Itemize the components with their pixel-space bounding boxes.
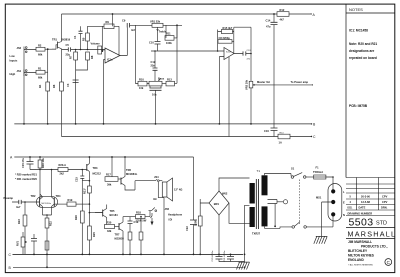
svg-text:R30: R30 [107,221,112,225]
svg-text:NOTES: NOTES [349,7,363,12]
resistor R13 [166,81,177,86]
svg-text:20-3-90: 20-3-90 [361,195,370,199]
svg-text:C14: C14 [266,19,271,23]
svg-text:R22: R22 [49,221,53,226]
svg-text:R25: R25 [92,232,96,237]
svg-text:4u7: 4u7 [16,205,21,209]
resistor R27 [45,241,49,250]
wire supply rail top [62,13,278,15]
resistor R6 [60,82,64,137]
capacitor C14 [271,22,278,24]
resistor R8 lower [76,52,90,70]
svg-text:ISS.: ISS. [348,206,353,210]
jack JS5 headphone [149,208,157,219]
wire treble row [130,24,183,26]
transistor pair envelope TR2 TR4 [36,197,57,208]
wire TR7 connections [122,217,124,255]
svg-text:JS2: JS2 [17,46,22,50]
resistor R16 [38,157,42,198]
svg-text:2k2: 2k2 [60,172,65,176]
resistor R22 tail [45,218,49,267]
svg-text:VR3 10k: VR3 10k [245,79,249,90]
svg-text:R8: R8 [90,55,94,59]
resistor R14b [218,40,232,44]
transistor TR4 [53,198,55,207]
resistor R14 [278,134,290,139]
transistor TR6 [120,178,122,185]
svg-text:100k: 100k [166,41,172,45]
svg-text:BLETCHLEY: BLETCHLEY [348,249,368,253]
svg-text:R19: R19 [68,198,73,202]
wire primary bottom to switch [265,226,292,228]
wire A rail drop R17 [111,157,113,177]
feedback network IC1b [218,27,251,53]
wire mix node [47,49,49,82]
svg-text:R9: R9 [106,20,110,24]
bridge rectifier BR1 [209,191,229,215]
NOTES box [346,4,395,177]
svg-text:R11: R11 [166,32,171,36]
svg-text:PRODUCTS LTD.,: PRODUCTS LTD., [361,245,388,249]
svg-text:C9: C9 [122,19,126,23]
svg-text:4Ω: 4Ω [153,197,157,201]
svg-text:12" 4Ω: 12" 4Ω [174,188,182,192]
svg-text:STD: STD [376,221,387,227]
wire TR1 drain to rail [61,14,63,42]
node mix [47,48,49,50]
capacitor C20 [216,257,223,260]
potentiometer VR volume [98,46,105,54]
wire speaker return [158,182,164,254]
capacitor C15 [29,157,31,162]
wire TR3 collector to rail [88,157,90,164]
svg-text:TR5: TR5 [110,209,115,213]
svg-text:MS1: MS1 [316,196,322,200]
potentiometer VR2 bass [149,79,166,86]
transistor TR2 [39,198,41,207]
jack JS4 speaker [156,179,163,181]
svg-text:IC1: MC1458: IC1: MC1458 [349,29,368,33]
node B terminal [311,123,312,124]
svg-text:MARSHALL: MARSHALL [348,229,397,238]
resistor R19 [54,202,89,206]
resistor R5 upper [86,26,90,49]
svg-text:R20-A: R20-A [59,163,67,167]
wire 0V rail preamp [14,123,311,125]
wire center tap [245,205,250,262]
svg-text:To Power amp: To Power amp [291,80,309,84]
fuse F1 [306,175,326,179]
svg-text:S1: S1 [291,167,295,171]
svg-text:TR2: TR2 [31,194,36,198]
svg-text:C3: C3 [66,83,70,87]
capacitor C4 [80,26,82,31]
capacitor C11 [150,86,161,88]
svg-text:T500mA: T500mA [313,170,323,174]
svg-text:JS1: JS1 [17,69,22,73]
transistor TR3 [86,164,88,171]
wire jack grounds [23,47,25,124]
resistor R33 [198,216,202,226]
svg-text:IC1b: IC1b [226,52,231,54]
wire IC1a plus input [104,60,106,124]
wire bridge AC bottom [229,203,250,223]
svg-text:R6: R6 [52,84,56,88]
op-amp IC1a [105,48,120,63]
switch S1 bottom [292,222,306,228]
svg-text:High: High [10,72,16,76]
svg-text:W02: W02 [222,192,228,196]
svg-text:ENGLAND: ENGLAND [348,258,364,262]
svg-text:© ALL RIGHTS RESERVED: © ALL RIGHTS RESERVED [348,264,374,267]
wire zobel drop [193,157,195,254]
node C terminal [311,136,312,137]
wire mid to IC1b [151,50,224,52]
copyright symbol C [385,259,392,266]
resistor R31 [128,232,132,254]
svg-text:C22: C22 [185,226,189,231]
resistor R30 [105,225,120,229]
pin E [331,200,335,204]
primary tap loop [268,200,278,227]
svg-text:* R20 marked R21: * R20 marked R21 [15,173,37,177]
capacitor C10 [155,42,161,45]
svg-text:MC9081L: MC9081L [126,172,138,176]
wire emitters tail [43,207,52,219]
wire IC1b plus input [219,57,224,124]
svg-text:100R: 100R [194,220,198,226]
tone stack left bracket [134,25,136,83]
resistor R12 [277,12,289,17]
svg-text:12-5-88: 12-5-88 [361,200,370,204]
node R4 ground [47,123,49,125]
svg-text:* R21 marked R20: * R21 marked R20 [15,177,37,181]
svg-text:JIM MARSHALL: JIM MARSHALL [348,240,372,244]
svg-text:Note: R20 and R21: Note: R20 and R21 [349,42,377,46]
preset RV1 [21,232,27,254]
svg-text:Master Vol: Master Vol [257,80,270,84]
wire E pin to ground [322,202,332,236]
wire bridge AC top [219,178,250,191]
jack JS1 [24,70,36,77]
svg-text:JS4: JS4 [154,175,159,179]
svg-text:R21*: R21* [83,188,87,194]
svg-text:R16 10k: R16 10k [41,158,45,168]
svg-text:1A: 1A [279,141,282,145]
svg-text:TR4: TR4 [56,194,61,198]
wire IC1b power pin [228,57,230,137]
node rail tap [112,13,114,15]
resistor R26 [80,181,84,255]
wire bridge DC plus [218,215,220,254]
svg-text:68k: 68k [38,53,43,57]
svg-text:TXR27: TXR27 [252,232,261,236]
ground symbol mains earth [314,236,327,243]
svg-text:C5: C5 [66,43,70,47]
svg-text:R26: R26 [74,215,78,220]
svg-text:R7: R7 [69,55,73,59]
wire feedback top IC1a [88,26,120,55]
node treble junction [176,24,178,26]
svg-text:5503: 5503 [349,217,374,229]
svg-text:JS5: JS5 [165,207,170,211]
wire TR2 collector load [40,194,43,197]
svg-text:10k: 10k [139,86,144,90]
svg-text:R5: R5 [82,37,86,41]
resistor R21 [88,186,92,226]
mains connector MS1 outline [328,184,342,222]
switch gang dashed link [299,180,301,225]
svg-text:RV1: RV1 [16,240,20,246]
svg-text:TR1: TR1 [52,38,57,42]
ground symbol PSU [237,262,250,269]
svg-text:DRAWING NUMBER: DRAWING NUMBER [348,211,373,215]
resistor R25 [88,226,92,254]
wire TR6 collector to rail [124,157,126,177]
transformer primary winding [262,175,268,195]
tone stack right bracket [176,25,178,83]
svg-text:R17: R17 [106,173,111,177]
wire C rail [13,253,244,255]
svg-text:Headphone: Headphone [168,213,183,217]
transformer secondary winding [250,183,255,204]
resistor R10 [135,81,149,86]
svg-text:TR3: TR3 [93,166,98,170]
resistor R15 [222,29,233,33]
wire N pin to switch [306,217,333,227]
svg-text:22n: 22n [151,64,156,68]
svg-text:C15 47u: C15 47u [21,158,25,168]
resistor R11 [165,25,177,40]
resistor R4 [46,82,50,124]
svg-text:C4: C4 [73,35,77,39]
svg-text:33k: 33k [107,229,112,233]
switch S1 top [291,173,306,179]
svg-text:Preamp: Preamp [4,196,14,200]
transformer core [256,179,258,229]
capacitor C19 [128,221,133,224]
svg-text:R15 4k7: R15 4k7 [223,26,233,30]
svg-text:C8 2200p: C8 2200p [219,36,231,40]
node jack ground junction [23,123,25,125]
svg-text:R1: R1 [38,67,42,71]
svg-text:47u: 47u [266,25,271,29]
svg-text:R18: R18 [136,211,141,215]
svg-text:CPV: CPV [382,195,388,199]
capacitor C17 [19,200,21,204]
wire IC1a output [120,28,127,56]
wire preamp input [12,201,30,203]
svg-text:Volume: Volume [91,42,101,46]
wire TR3 emitter chain [88,172,90,187]
capacitor C21 [227,257,234,260]
potentiometer VR3 master [249,77,311,124]
transistor TR5 [102,210,104,217]
ground arrow DI [151,218,153,225]
wire TR5 connections [89,205,106,225]
wire rail A right segment [289,13,310,15]
resistor R17 [105,177,121,182]
svg-text:R2: R2 [38,44,42,48]
resistor R1 [36,70,48,74]
wire TR4 collector bootstrap [51,170,53,198]
svg-text:TR7: TR7 [115,233,120,237]
wire rail tap [112,14,114,26]
wire A supply rail [14,156,193,158]
capacitor C16b [81,170,83,177]
svg-text:R23: R23 [17,219,21,224]
wire lower return rail [62,136,312,138]
svg-text:E: E [343,201,345,205]
wire B rail [13,266,243,268]
svg-text:R10: R10 [139,78,144,82]
capacitor C5 [68,47,70,51]
wire IC1b output [234,27,251,77]
svg-text:VR1 22k: VR1 22k [150,20,161,24]
svg-text:designations are: designations are [349,49,375,53]
capacitor C18 [31,239,37,242]
voltage selector circle [277,200,288,204]
wire TR6 emitter to output [125,181,156,190]
svg-text:IC1a: IC1a [107,58,113,62]
svg-text:C21 4700u: C21 4700u [224,250,226,261]
resistor R20A [30,168,68,172]
wire TR1 out [62,49,106,51]
resistor R7 [74,50,78,124]
svg-text:C15: C15 [75,177,79,182]
svg-text:N: N [343,213,345,217]
svg-text:T1: T1 [257,169,261,173]
capacitor C9 [127,23,129,28]
svg-text:R12: R12 [280,8,285,12]
speaker LS1 [162,178,172,201]
capacitor C22 [190,220,197,225]
svg-text:PCB: IM75B: PCB: IM75B [349,104,368,108]
svg-text:CPV: CPV [382,200,388,204]
capacitor C13a [243,51,246,55]
revision table [346,178,395,216]
svg-text:C10: C10 [149,41,154,45]
svg-text:DRN.: DRN. [381,206,388,210]
wire A rail drop [273,14,275,22]
op-amp IC1b [224,48,234,60]
svg-text:C16: C16 [264,129,269,133]
svg-text:39k: 39k [107,183,112,187]
svg-text:R13: R13 [167,78,172,82]
wire TR1 source down [61,49,63,82]
resistor R9 [104,24,114,29]
svg-text:/ DI: / DI [168,218,172,222]
resistor R2 [36,47,56,51]
svg-text:2N3819: 2N3819 [61,38,71,42]
transistor TR1 [52,42,62,50]
svg-text:R4: R4 [38,84,42,88]
svg-text:10n: 10n [152,93,157,97]
svg-text:DATE: DATE [359,206,366,210]
wire primary top to switch [265,174,292,176]
capacitor C3 [73,80,79,83]
svg-text:68k: 68k [38,76,43,80]
pin L [331,189,335,193]
resistor R23 [23,202,27,254]
capacitor C12 [153,68,158,70]
svg-text:C20 4700u: C20 4700u [212,250,214,261]
svg-text:C12: C12 [151,60,156,64]
potentiometer VR1 treble [152,23,163,30]
svg-text:Inputs: Inputs [10,59,18,63]
svg-text:repeated on board: repeated on board [349,56,377,60]
resistor R18 [123,211,150,219]
svg-text:MC1051a: MC1051a [42,203,52,205]
transistor TR7 [118,223,120,230]
svg-text:TR6: TR6 [126,168,131,172]
wire fuse to L pin [326,177,333,190]
svg-text:BC184: BC184 [110,213,119,217]
capacitor C16 [271,128,278,131]
pin N [331,212,335,216]
wire bridge DC minus / R33 branch [200,199,209,254]
svg-text:MILTON KEYNES: MILTON KEYNES [348,254,374,258]
jack JS2 [24,47,36,54]
svg-text:4k7: 4k7 [280,17,285,21]
svg-text:MC212: MC212 [93,172,102,176]
svg-text:Bass: Bass [158,77,165,81]
svg-text:BR1: BR1 [214,202,220,206]
resistor R32 [139,217,143,255]
